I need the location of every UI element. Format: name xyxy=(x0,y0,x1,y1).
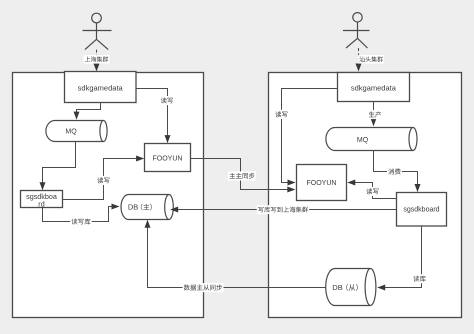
label 写库写到上海集群 xyxy=(257,205,309,214)
wire DBslave to DBmaster (replication) xyxy=(145,220,326,288)
svg-text:FOOYUN: FOOYUN xyxy=(307,180,337,187)
svg-text:DB: DB xyxy=(128,202,138,211)
label 读库 xyxy=(412,274,427,283)
box sdkgamedata left xyxy=(65,72,137,103)
wire sgsdkboardR to DBmaster (write to Shanghai) xyxy=(170,207,396,213)
svg-text:MQ: MQ xyxy=(357,137,369,144)
cylinder MQ left xyxy=(46,121,107,142)
label 读写 (sdkR-fooR) xyxy=(274,110,289,119)
cylinder DB(master) xyxy=(121,195,173,220)
box sdkgamedata right xyxy=(338,73,410,102)
box FOOYUN left xyxy=(145,144,191,172)
wire sdkgamedataL to MQL xyxy=(74,103,101,120)
label 读写 (sdkL-fooL) xyxy=(160,96,175,105)
label 主主同步 xyxy=(228,171,256,180)
label 上海集群 xyxy=(84,55,110,64)
wire actor-right to cluster (dashed) xyxy=(356,48,362,72)
actor left (Shanghai user) xyxy=(83,13,112,49)
wire MQL to sgsdkboardL xyxy=(40,142,76,190)
wire FOOYUNL to FOOYUNR (master-master sync) xyxy=(191,159,296,193)
wire sgsdkboardL to DBmaster xyxy=(43,204,120,222)
wire MQR to sgsdkboardR (consume) xyxy=(374,151,421,193)
cluster box left (Shanghai) xyxy=(13,73,204,318)
label 汕头集群 xyxy=(358,55,384,64)
svg-text:DB: DB xyxy=(332,283,342,292)
svg-text:FOOYUN: FOOYUN xyxy=(153,156,183,163)
box sgsdkboard right xyxy=(397,193,447,227)
box FOOYUN right xyxy=(297,165,347,201)
label 消费 xyxy=(387,167,402,176)
cylinder DB(slave) xyxy=(326,269,376,306)
wire sdkgamedataL to FOOYUNL xyxy=(136,89,171,144)
wire actor-left to cluster (dashed) xyxy=(94,50,100,72)
wire sdkgamedataR to MQR xyxy=(371,102,377,127)
svg-text:MQ: MQ xyxy=(65,129,77,136)
wire sgsdkboardL to FOOYUNL xyxy=(63,156,145,200)
label 读写库 xyxy=(70,217,92,226)
label 数据主从同步 xyxy=(183,283,224,292)
actor right (Shantou user) xyxy=(343,13,370,48)
svg-text:sdkgamedata: sdkgamedata xyxy=(78,83,124,92)
cluster box right (Shantou) xyxy=(269,73,462,318)
box sgsdkboard left (wrapped) xyxy=(21,191,63,209)
label 读写 (sgsR-fooR) xyxy=(365,187,380,196)
svg-text:sgsdkboard: sgsdkboard xyxy=(403,207,439,214)
cylinder MQ right xyxy=(326,128,417,151)
wire sgsdkboardR to DBslave (read) xyxy=(377,226,421,291)
svg-text:sdkgamedata: sdkgamedata xyxy=(351,83,397,92)
wire sgsdkboardR to FOOYUNR xyxy=(347,180,396,199)
svg-text:rd: rd xyxy=(38,199,44,208)
label 读写 (sgsL-fooL) xyxy=(96,176,111,185)
label 生产 xyxy=(368,110,383,119)
wire sdkgamedataR to FOOYUNR xyxy=(282,89,338,186)
